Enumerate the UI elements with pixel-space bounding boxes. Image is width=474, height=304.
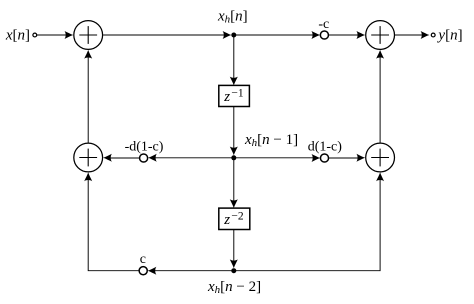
wire gain -d(1-c) to adder A3 [103,154,139,162]
wire delay z^-2 to node xh[n-2] [230,230,238,269]
svg-text:y[n]: y[n] [436,28,462,44]
svg-text:d(1-c): d(1-c) [308,140,343,155]
svg-text:z: z [223,89,230,105]
gain -d(1-c) [125,140,164,162]
svg-text:−2: −2 [231,211,243,223]
svg-text:-d(1-c): -d(1-c) [125,140,164,155]
gain d(1-c) [308,140,343,162]
node xh[n-1] [231,132,298,160]
wire adder A2 to output [395,31,430,39]
wire adder A1 to node xh[n] [103,31,231,39]
adder A2 (top-right) [366,21,395,50]
wire gain -c to adder A2 [329,31,366,39]
output terminal y[n] [431,28,462,44]
adder A3 (left-middle) [74,143,103,172]
svg-text:−1: −1 [231,88,243,100]
svg-text:xh[n]: xh[n] [217,9,248,26]
svg-text:xh[n − 2]: xh[n − 2] [207,279,261,296]
adder A1 (top-left) [74,21,103,50]
wire node xh[n] down to delay z^-1 [230,35,238,85]
delay z^-1 [219,85,250,106]
svg-text:z: z [223,212,230,228]
wire node xh[n-2] to gain c [148,267,234,275]
node xh[n-2] [207,268,261,296]
wire node xh[n-1] to gain d(1-c) [234,154,320,162]
wire node xh[n-1] to gain -d(1-c) [148,154,234,162]
svg-text:-c: -c [318,17,329,32]
wire adder A4 up to adder A2 [376,50,384,143]
wire node xh[n-1] down to delay z^-2 [230,158,238,208]
svg-text:x[n]: x[n] [5,28,30,44]
wire gain c to adder A3 (left feedback) [84,172,139,270]
wire gain d(1-c) to adder A4 [329,154,366,162]
input terminal x[n] [5,28,37,44]
adder A4 (right-middle) [366,143,395,172]
delay z^-2 [219,208,250,229]
svg-text:c: c [140,252,146,267]
gain -c [318,17,329,39]
gain c [139,252,147,275]
wire input to adder A1 [37,31,74,39]
wire delay z^-1 to node xh[n-1] [153,35,238,155]
svg-text:xh[n − 1]: xh[n − 1] [244,132,298,149]
node xh[n] [217,9,248,38]
wire node xh[n] to gain -c [234,31,320,39]
wire node xh[n-2] to adder A4 (right feedback) [234,172,384,270]
wire adder A3 up to adder A1 [84,50,92,143]
